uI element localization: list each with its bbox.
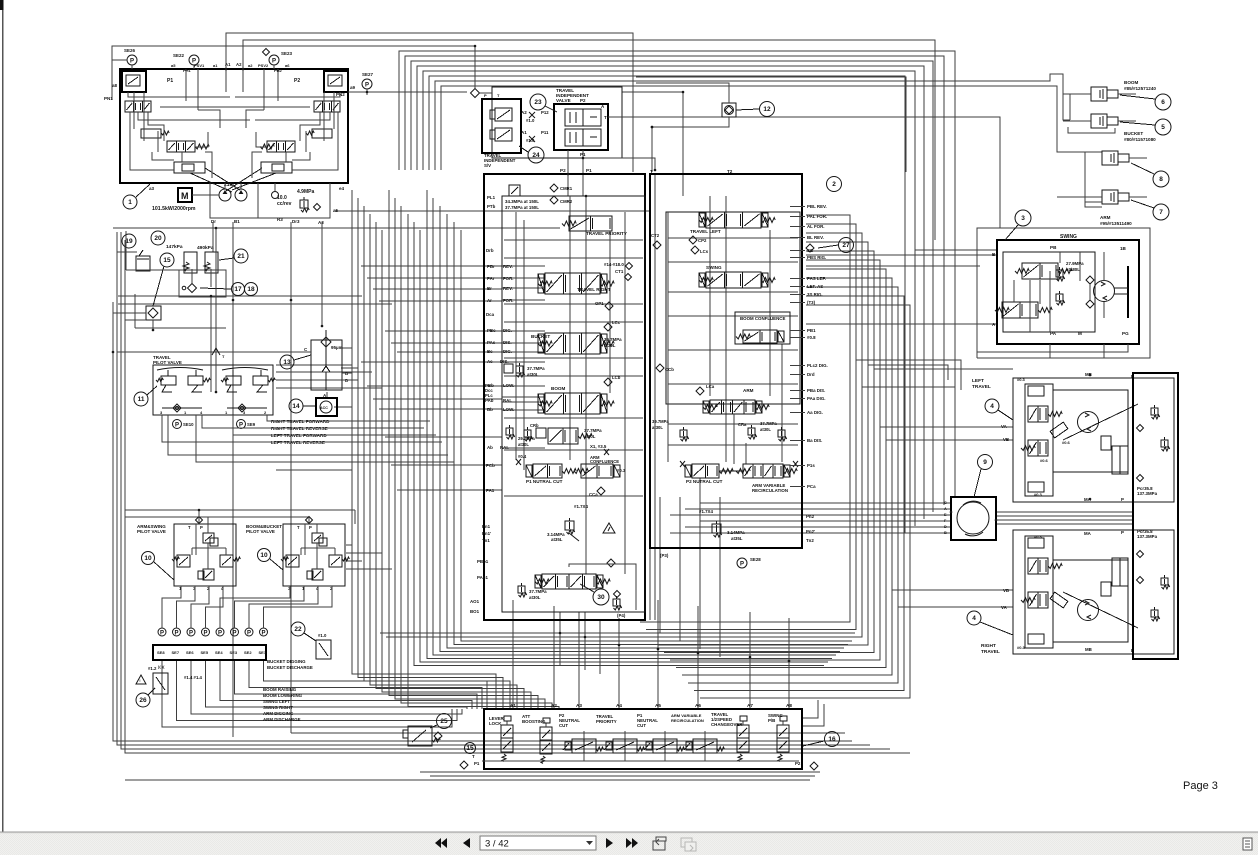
accessory valve 25	[408, 726, 432, 746]
svg-text:P: P	[130, 58, 134, 64]
gauge SE22	[189, 55, 199, 65]
wire tank return line	[113, 227, 560, 229]
item 10 balloon right	[258, 549, 271, 562]
item 20 balloon	[151, 231, 165, 245]
item 12 shuttle	[722, 103, 736, 117]
wire accumulator feeds	[117, 251, 137, 253]
svg-text:SE23: SE23	[281, 51, 293, 56]
check CCa	[597, 487, 605, 495]
svg-text:11: 11	[138, 396, 145, 403]
svg-text:AL FOR.: AL FOR.	[807, 224, 824, 229]
main pump 2	[235, 189, 247, 201]
item 21 balloon	[234, 249, 248, 263]
svg-text:LCa: LCa	[706, 384, 715, 389]
gauge SE23	[269, 55, 279, 65]
svg-text:at30L: at30L	[527, 372, 539, 377]
svg-text:SE28: SE28	[750, 557, 761, 562]
svg-text:ARM DIGGING: ARM DIGGING	[263, 711, 294, 716]
svg-text:P1s: P1s	[807, 463, 815, 468]
svg-text:PAa DIG.: PAa DIG.	[807, 396, 825, 401]
svg-text:P: P	[175, 422, 179, 428]
gauge SE10	[173, 420, 182, 429]
svg-text:RIGHT: RIGHT	[981, 643, 996, 649]
svg-text:2: 2	[832, 181, 836, 188]
check CP1	[605, 302, 613, 310]
svg-text:P: P	[174, 630, 178, 636]
svg-text:P11: P11	[541, 130, 549, 135]
accumulator 1	[184, 252, 197, 273]
travel pilot valves left pair	[161, 376, 176, 385]
regulator spool right	[267, 141, 295, 152]
svg-text:TRAVEL PRIORITY: TRAVEL PRIORITY	[586, 231, 627, 236]
wire ti to valve P1 P2	[582, 150, 584, 196]
svg-text:#85/#12571240: #85/#12571240	[1124, 86, 1156, 91]
svg-text:3S RIG.: 3S RIG.	[807, 292, 823, 297]
wire pump relief drain	[335, 210, 650, 212]
travel pilot valves right pair	[226, 376, 241, 385]
svg-text:Dr: Dr	[211, 219, 216, 224]
svg-text:PBr: PBr	[487, 264, 495, 269]
svg-text:10: 10	[144, 555, 152, 562]
svg-text:LCc: LCc	[612, 320, 621, 325]
svg-text:7: 7	[1159, 209, 1163, 216]
svg-text:CMR1: CMR1	[560, 186, 573, 191]
svg-text:BUCKET DIGGING: BUCKET DIGGING	[267, 659, 306, 664]
svg-text:SE7: SE7	[172, 650, 180, 655]
svg-text:BUCKET DISCHARGE: BUCKET DISCHARGE	[267, 665, 313, 670]
wire top-left feed to travel independent valve	[112, 46, 475, 100]
solenoid s/v upper	[495, 108, 512, 121]
svg-text:VA: VA	[1001, 605, 1008, 610]
solenoid valve travel priority	[613, 739, 637, 753]
svg-text:SE9: SE9	[247, 422, 256, 427]
svg-text:101.5kW/2000rpm: 101.5kW/2000rpm	[152, 206, 196, 212]
svg-text:a5: a5	[171, 63, 176, 68]
svg-text:PBa DIS.: PBa DIS.	[807, 388, 825, 393]
svg-text:PAc: PAc	[487, 340, 496, 345]
svg-text:PG: PG	[1122, 331, 1129, 336]
svg-text:RAI.: RAI.	[500, 445, 509, 450]
svg-text:at30L: at30L	[760, 427, 771, 432]
wire top bundle	[399, 51, 955, 498]
item 15 small balloon	[465, 743, 476, 754]
wire boom cylinder feed	[435, 74, 1070, 170]
BO1 relief	[518, 586, 525, 593]
svg-text:RECIRCULATION: RECIRCULATION	[752, 488, 788, 493]
svg-text:18: 18	[247, 286, 255, 293]
svg-text:PB: PB	[1050, 245, 1057, 250]
svg-text:PCb: PCb	[486, 463, 495, 468]
svg-text:P: P	[218, 630, 222, 636]
accumulator block frame	[126, 269, 179, 271]
svg-text:B: B	[944, 531, 947, 535]
svg-text:#95/#13511490: #95/#13511490	[1100, 221, 1132, 226]
svg-text:Dr3: Dr3	[292, 219, 300, 224]
svg-text:21: 21	[237, 253, 245, 260]
svg-text:at30L: at30L	[652, 425, 663, 430]
ti inlet check	[471, 89, 480, 98]
ti spool upper	[565, 109, 601, 126]
svg-text:Pn1: Pn1	[482, 524, 491, 529]
svg-text:at30L: at30L	[529, 595, 541, 600]
shuttle valve 26	[153, 673, 168, 694]
svg-text:BOOSTING: BOOSTING	[522, 719, 546, 724]
svg-text:REV.: REV.	[503, 286, 513, 291]
svg-text:A2: A2	[236, 62, 242, 67]
svg-text:RECIRCULATION: RECIRCULATION	[671, 718, 704, 723]
svg-text:PH2: PH2	[274, 68, 283, 73]
svg-text:SE22: SE22	[173, 53, 185, 58]
svg-text:CT2: CT2	[651, 233, 660, 238]
svg-text:BO1: BO1	[470, 609, 480, 614]
svg-text:CRa: CRa	[738, 422, 747, 427]
svg-text:PTb: PTb	[487, 204, 496, 209]
svg-text:PN1: PN1	[104, 96, 113, 101]
svg-text:LCs: LCs	[700, 249, 709, 254]
svg-text:37.7MPa at 150L: 37.7MPa at 150L	[505, 205, 539, 210]
solenoid valve swing p/b	[777, 725, 789, 752]
svg-text:A1: A1	[510, 703, 516, 708]
svg-text:LEF. AS: LEF. AS	[807, 284, 823, 289]
pump lower frame	[210, 183, 330, 218]
svg-text:a6: a6	[285, 63, 290, 68]
swing inner box	[1003, 252, 1095, 332]
travel independent solenoid box	[482, 99, 521, 153]
gauge SE9	[237, 420, 246, 429]
check valve	[188, 284, 197, 293]
svg-text:37.7MPa: 37.7MPa	[760, 421, 777, 426]
item 6 balloon	[1155, 94, 1171, 110]
check CP2	[689, 236, 697, 244]
wire ti T line to swing loop	[608, 117, 1000, 228]
solenoid valve arm variable recirculation	[693, 739, 717, 753]
svg-text:SWING: SWING	[706, 265, 722, 270]
svg-text:#0.8: #0.8	[807, 335, 816, 340]
svg-text:BOOM CONFLUENCE: BOOM CONFLUENCE	[740, 316, 785, 321]
svg-text:MB: MB	[1085, 647, 1092, 652]
svg-text:BOOM: BOOM	[1124, 80, 1138, 85]
warning triangle	[136, 675, 146, 684]
svg-text:BOOM RAISING: BOOM RAISING	[263, 687, 297, 692]
solenoid valve lever lock	[501, 725, 513, 752]
svg-text:39.7MPa: 39.7MPa	[604, 337, 622, 342]
item 26 balloon	[136, 693, 150, 707]
pilot filter assembly	[311, 340, 342, 390]
item 11 balloon	[134, 392, 148, 406]
svg-text:Bc: Bc	[487, 349, 493, 354]
svg-text:ACC: ACC	[320, 406, 328, 410]
solenoid valve travel 1/2speed	[737, 725, 749, 752]
svg-text:PBL REV.: PBL REV.	[807, 204, 827, 209]
item 24 balloon	[528, 147, 544, 163]
svg-text:Tn1: Tn1	[482, 538, 490, 543]
svg-text:LOW.: LOW.	[503, 407, 514, 412]
svg-text:6: 6	[1161, 99, 1165, 106]
svg-text:TRAVEL RIGHT: TRAVEL RIGHT	[577, 287, 611, 292]
svg-text:!: !	[139, 679, 140, 683]
svg-text:P: P	[160, 630, 164, 636]
right travel motor unit	[1013, 530, 1174, 654]
svg-text:a2: a2	[248, 63, 253, 68]
svg-text:CP2: CP2	[698, 238, 707, 243]
arm variable recirculation spool	[743, 464, 783, 478]
svg-text:LEFT: LEFT	[972, 378, 984, 384]
wire item12 frame	[636, 77, 906, 172]
swing unit outer loop	[977, 228, 1150, 358]
wire under-bank lines	[420, 771, 820, 773]
svg-text:P1: P1	[474, 761, 480, 766]
svg-text:PBc: PBc	[487, 328, 496, 333]
svg-text:CCb: CCb	[665, 367, 674, 372]
item 5 balloon	[1155, 119, 1171, 135]
travel pilot valve box	[153, 365, 273, 415]
item 2 balloon	[827, 177, 842, 192]
wire a9 line	[380, 91, 467, 93]
motor M	[178, 188, 192, 202]
svg-text:Drb: Drb	[486, 248, 494, 253]
cv inlet check CMR1	[509, 185, 520, 196]
ti orifice marks	[529, 112, 535, 118]
swing bottom wires	[1049, 344, 1051, 358]
arm&swing pilot valve item 10	[174, 524, 236, 586]
svg-text:Pn1': Pn1'	[482, 531, 491, 536]
svg-text:10: 10	[260, 552, 268, 559]
gauge SE27	[362, 79, 372, 89]
travel right spool	[545, 273, 600, 294]
wire center-left branches	[118, 295, 362, 297]
svg-text:22: 22	[294, 626, 302, 633]
wire cv port branches	[361, 265, 502, 267]
svg-text:PILOT VALVE: PILOT VALVE	[153, 360, 182, 365]
item 1 balloon	[123, 195, 137, 209]
svg-text:VB: VB	[1003, 588, 1009, 593]
item 18 balloon	[245, 283, 258, 296]
svg-text:PSV1: PSV1	[194, 63, 205, 68]
item 8 balloon	[1153, 171, 1169, 187]
svg-text:PLc2 DIG.: PLc2 DIG.	[807, 363, 828, 368]
svg-text:#80/#11571080: #80/#11571080	[1124, 137, 1156, 142]
svg-text:at30L: at30L	[604, 343, 616, 348]
svg-text:P: P	[1121, 497, 1124, 502]
svg-text:P: P	[484, 93, 487, 98]
svg-text:CUT: CUT	[637, 723, 646, 728]
svg-text:CONFLUENCE: CONFLUENCE	[590, 459, 619, 464]
svg-text:#0.3: #0.3	[1017, 377, 1026, 382]
item 19 balloon	[122, 234, 136, 248]
travel manifold bar	[1133, 373, 1178, 659]
svg-text:Page 3: Page 3	[1183, 780, 1218, 792]
svg-text:34.3MPa at 150L: 34.3MPa at 150L	[505, 199, 539, 204]
svg-text:PILOT VALVE: PILOT VALVE	[246, 529, 275, 534]
solenoid bank internal bus	[482, 760, 799, 762]
svg-text:CRb: CRb	[530, 423, 539, 428]
cv left section frame	[502, 196, 645, 612]
svg-text:M: M	[1078, 331, 1082, 336]
svg-text:Ba DIS.: Ba DIS.	[807, 438, 822, 443]
svg-text:D: D	[944, 525, 947, 529]
svg-text:13: 13	[283, 359, 291, 366]
wire swing feed lines	[806, 254, 997, 256]
svg-text:LOW.: LOW.	[503, 383, 514, 388]
svg-text:#1.7X4: #1.7X4	[699, 509, 713, 514]
svg-text:cc/rev: cc/rev	[277, 201, 292, 207]
left page border	[2, 0, 4, 832]
servo piston left	[174, 162, 205, 173]
svg-text:P/B: P/B	[768, 718, 775, 723]
svg-text:a1: a1	[213, 63, 218, 68]
svg-text:ARM: ARM	[743, 388, 754, 393]
swing valve lower	[1002, 302, 1038, 318]
svg-text:#0.3: #0.3	[1017, 645, 1026, 650]
svg-text:TRAVEL: TRAVEL	[981, 649, 1000, 655]
svg-text:SE4: SE4	[215, 650, 223, 655]
svg-text:PL1: PL1	[487, 195, 496, 200]
cv right section frame	[666, 212, 800, 404]
svg-text:P: P	[189, 630, 193, 636]
svg-text:Dca: Dca	[486, 312, 495, 317]
svg-text:P2 NUTRAL CUT: P2 NUTRAL CUT	[686, 479, 723, 484]
wire arm section links	[719, 470, 743, 472]
check at BO1	[607, 559, 615, 567]
wire filter branch	[341, 347, 352, 349]
svg-text:B1: B1	[234, 219, 240, 224]
solenoid bank frame	[484, 709, 802, 769]
item 9 balloon	[978, 455, 993, 470]
svg-text:C: C	[944, 501, 947, 505]
item 14 balloon	[289, 399, 303, 413]
svg-text:8: 8	[1159, 176, 1163, 183]
svg-text:a3: a3	[149, 186, 155, 191]
check LCb	[604, 378, 612, 386]
svg-text:39.7MPa: 39.7MPa	[652, 419, 669, 424]
wire solenoid feeders	[512, 600, 514, 708]
svg-text:14: 14	[292, 403, 300, 410]
svg-text:PA1: PA1	[486, 488, 495, 493]
ti spool lower	[565, 129, 601, 146]
toolbar page combo box	[480, 836, 596, 850]
toolbar next-page icons	[606, 838, 613, 848]
svg-text:at30L: at30L	[518, 442, 529, 447]
svg-text:1B: 1B	[1120, 246, 1127, 251]
svg-text:P: P	[309, 525, 312, 530]
svg-text:Pn2': Pn2'	[806, 529, 815, 534]
svg-text:a5: a5	[333, 208, 339, 213]
svg-text:PRIORITY: PRIORITY	[596, 719, 617, 724]
svg-text:PSV2: PSV2	[258, 63, 269, 68]
item 12 balloon	[760, 102, 775, 117]
pump regulator box left	[122, 71, 146, 92]
travel independent valve enclosure	[492, 87, 622, 158]
wire center bundle	[352, 190, 496, 709]
svg-text:SE10: SE10	[183, 422, 194, 427]
svg-text:SE27: SE27	[362, 72, 374, 77]
svg-text:26: 26	[139, 697, 147, 704]
svg-text:T: T	[650, 169, 653, 174]
svg-text:A5: A5	[655, 703, 661, 708]
toolbar prev-page icons	[441, 838, 447, 848]
svg-text:P2: P2	[795, 761, 801, 766]
svg-text:Ab: Ab	[487, 445, 493, 450]
svg-text:LOCK: LOCK	[489, 721, 502, 726]
svg-text:CUT: CUT	[559, 723, 568, 728]
cv interior rails	[569, 196, 571, 460]
svg-text:A3: A3	[576, 703, 582, 708]
svg-text:ARM: ARM	[1100, 215, 1111, 220]
travel pilot feed drops	[210, 296, 212, 392]
svg-text:RAI.: RAI.	[503, 398, 512, 403]
toolbar snapshot icon	[653, 841, 665, 850]
svg-text:P12: P12	[541, 110, 549, 115]
check LCc	[604, 323, 612, 331]
svg-text:29.7MPa: 29.7MPa	[518, 436, 535, 441]
svg-text:147kPa: 147kPa	[166, 244, 183, 250]
swing reliefs	[1056, 270, 1063, 277]
svg-text:#0.6: #0.6	[1062, 440, 1071, 445]
svg-text:X1, #3.5: X1, #3.5	[590, 444, 607, 449]
svg-text:SE26: SE26	[124, 48, 136, 53]
svg-text:P2: P2	[580, 98, 586, 103]
wire top bus 2	[243, 40, 935, 240]
svg-text:PAL FOR.: PAL FOR.	[807, 214, 827, 219]
svg-text:PAr: PAr	[487, 276, 495, 281]
swing motor	[1094, 281, 1115, 302]
svg-text:(P4): (P4)	[617, 613, 626, 618]
item 25 balloon	[437, 714, 452, 729]
svg-text:(T3): (T3)	[807, 300, 816, 305]
item 7 balloon	[1153, 204, 1169, 220]
svg-text:DIS.: DIS.	[500, 359, 509, 364]
svg-text:Tn2: Tn2	[806, 538, 814, 543]
wire left travel top corner	[856, 360, 961, 390]
svg-text:at180L: at180L	[1066, 267, 1080, 272]
svg-text:S/V: S/V	[484, 163, 491, 168]
svg-text:BUCKET: BUCKET	[1124, 131, 1143, 136]
svg-text:REV.: REV.	[503, 264, 513, 269]
regulator spool left	[167, 141, 195, 152]
pilot valve output risers	[162, 586, 181, 628]
svg-text:37.7MPa: 37.7MPa	[584, 428, 602, 433]
svg-text:PCa: PCa	[807, 484, 816, 489]
boom port relief cluster	[506, 428, 513, 435]
svg-text:A1: A1	[521, 130, 527, 135]
svg-text:37.7MPa: 37.7MPa	[527, 366, 545, 371]
P1 neutral cut spool	[533, 464, 562, 478]
svg-text:Aa DIG.: Aa DIG.	[807, 410, 823, 415]
svg-text:4.9MPa: 4.9MPa	[297, 189, 314, 195]
svg-text:P: P	[272, 58, 276, 64]
svg-text:ARM DISCHARGE: ARM DISCHARGE	[263, 717, 301, 722]
svg-text:A2: A2	[521, 110, 527, 115]
svg-text:3: 3	[1021, 215, 1025, 222]
svg-text:490kPa: 490kPa	[197, 245, 214, 251]
svg-text:15: 15	[163, 257, 171, 264]
svg-text:4: 4	[990, 403, 994, 410]
svg-text:PILOT VALVE: PILOT VALVE	[137, 529, 166, 534]
svg-text:15: 15	[466, 745, 474, 752]
svg-text:PAo1: PAo1	[477, 575, 488, 580]
accumulator 2	[205, 252, 218, 273]
gauge SE28	[737, 558, 747, 568]
svg-text:FOR.: FOR.	[503, 298, 514, 303]
option spool BO1	[542, 574, 596, 589]
svg-text:A2: A2	[551, 703, 557, 708]
pilot valve top feed lines	[125, 509, 355, 511]
wire rotary joint lines	[700, 502, 951, 504]
svg-text:M: M	[181, 191, 189, 201]
svg-text:T: T	[472, 754, 475, 759]
wire cv bottom feeders	[559, 612, 561, 665]
svg-text:A1: A1	[225, 62, 231, 67]
